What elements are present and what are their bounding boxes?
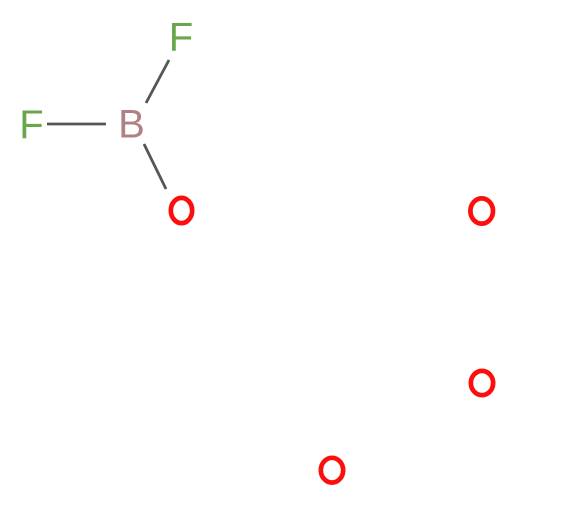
node O3 (right oxygen) [471,371,493,395]
svg-text:F: F [169,16,193,60]
node O2 (top right oxygen) [470,198,493,223]
svg-text:F: F [19,103,43,147]
wire: bond B-O [144,144,166,189]
svg-text:B: B [118,103,145,147]
node O1 (oxygen bonded to B, drawn as ring) [171,198,192,223]
wire: bond B-F top [146,60,169,103]
node O4 (bottom oxygen) [321,458,343,483]
wire: bond F-B horizontal [47,123,106,126]
